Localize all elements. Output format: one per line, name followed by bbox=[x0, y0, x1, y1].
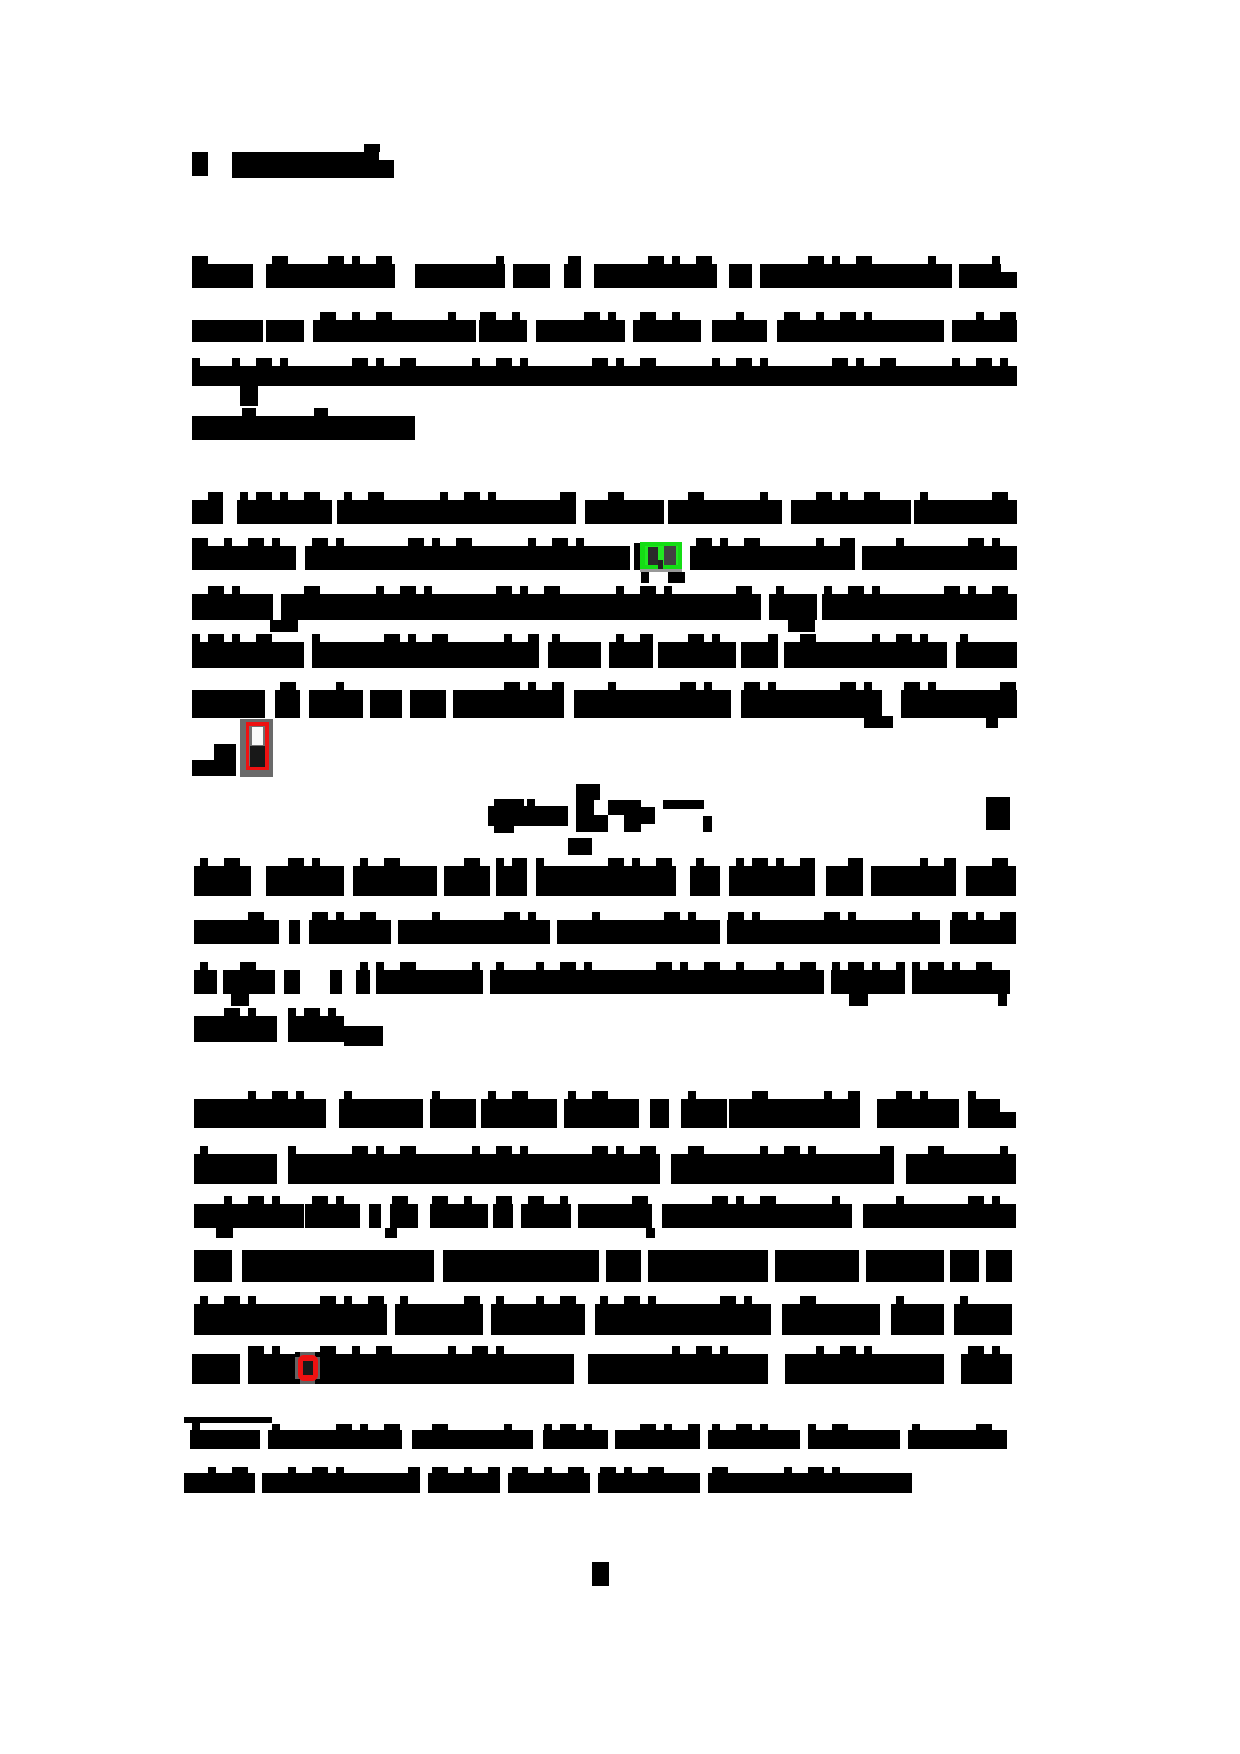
red O link box bbox=[295, 1352, 320, 1384]
p2 line5 descender bbox=[864, 716, 998, 728]
footnote rule bbox=[184, 1417, 272, 1423]
eq psi upper bbox=[494, 799, 535, 806]
p3 line4 tail bbox=[344, 1026, 383, 1046]
p1 line4 bbox=[192, 416, 415, 440]
eq number (1) bbox=[986, 797, 1010, 830]
p1 line3 descender bbox=[240, 386, 258, 406]
p4 line2 bbox=[194, 1146, 1016, 1184]
footnote line1 bbox=[190, 1424, 1007, 1449]
eq superscript bar bbox=[663, 800, 704, 809]
page number 1 bbox=[592, 1562, 609, 1586]
p4 line3 bbox=[194, 1196, 1016, 1228]
p2 line5 bbox=[192, 682, 1017, 718]
p4 line1 bbox=[194, 1091, 1000, 1128]
footnote line2 bbox=[184, 1467, 912, 1493]
p4 line1 hyphen bbox=[1000, 1112, 1016, 1128]
p4 line5 bbox=[194, 1296, 1012, 1335]
eq psi(x)= main bbox=[488, 806, 568, 826]
eq lambda tall bbox=[624, 800, 641, 832]
eq sigma bottom bbox=[576, 815, 608, 832]
heading number 1 bbox=[192, 152, 208, 176]
p2 line1 bbox=[192, 492, 1017, 524]
p3 line3 descender bbox=[231, 994, 1007, 1006]
p3 line1 bbox=[194, 858, 1016, 896]
eq e term bbox=[641, 807, 655, 824]
p1 line3 bbox=[192, 358, 1017, 386]
eq sigma mid bbox=[576, 800, 594, 815]
p3 line3 bbox=[194, 962, 1010, 994]
heading word Introduction bbox=[232, 152, 379, 170]
p1 line2 bbox=[192, 312, 1017, 342]
heading word lower bbox=[232, 160, 394, 178]
p4 line4 caps bbox=[194, 1250, 1012, 1282]
p3 line2 bbox=[194, 912, 1016, 944]
eq lambda small bbox=[608, 800, 624, 815]
p1 line1 bbox=[192, 256, 1001, 288]
p2 line4 bbox=[192, 634, 1017, 668]
green citation box [1,2] bbox=[634, 542, 685, 583]
p2 line2 bbox=[192, 538, 1017, 570]
heading ascender bump bbox=[364, 144, 380, 152]
eq term tail bbox=[703, 816, 712, 832]
p2 line6 partial bbox=[192, 760, 236, 776]
footnote T ascender bbox=[192, 1420, 200, 1427]
red footnote marker box bbox=[240, 719, 273, 777]
p4 line3 descender bbox=[216, 1228, 655, 1238]
p2 line3 descender bbox=[270, 620, 815, 632]
p1 line1 hyphen bbox=[1001, 272, 1017, 288]
eq sigma subscript bbox=[568, 838, 592, 855]
p1 line4 ascenders bbox=[242, 408, 328, 416]
p2 line3 bbox=[192, 586, 1017, 620]
p4 line6 bbox=[192, 1346, 1012, 1384]
p2 line6 partial upper bbox=[214, 744, 236, 760]
p3 line4 short bbox=[194, 1008, 344, 1042]
eq sigma top bbox=[576, 784, 600, 800]
eq psi lower nub bbox=[494, 826, 514, 833]
